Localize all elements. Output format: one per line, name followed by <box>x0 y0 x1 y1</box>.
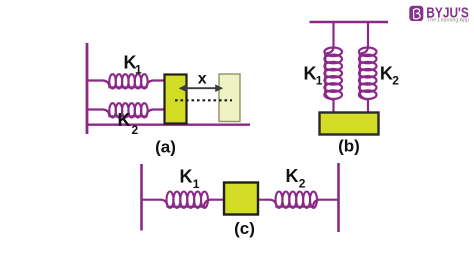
BYJU'S logo badge <box>409 6 423 21</box>
svg-text:2: 2 <box>299 177 306 191</box>
svg-text:1: 1 <box>316 74 323 88</box>
label K1 (a) <box>124 53 143 77</box>
wall (c) left fixed support <box>140 164 143 231</box>
svg-text:K: K <box>118 110 131 130</box>
svg-text:K: K <box>380 63 393 83</box>
label K2 (b) <box>380 63 399 87</box>
wall (a) left fixed support <box>86 43 89 134</box>
svg-text:(c): (c) <box>234 219 255 238</box>
wall (c) right fixed support <box>337 163 340 232</box>
spring K2 (c), horizontal coil <box>258 192 339 208</box>
mass block (c), yellow-green <box>224 183 258 215</box>
svg-text:K: K <box>304 63 317 83</box>
svg-text:1: 1 <box>193 177 200 191</box>
ceiling support (b) <box>310 21 389 24</box>
dotted reference line (a) <box>175 99 232 101</box>
ground line (a) <box>86 123 250 125</box>
svg-text:1: 1 <box>135 63 142 77</box>
spring K1 (a), horizontal coil <box>87 74 165 88</box>
svg-text:2: 2 <box>132 123 139 137</box>
label K1 (b) <box>304 63 323 87</box>
displaced ghost block (a), pale <box>219 74 240 122</box>
spring K2 (b), vertical coil <box>359 22 377 113</box>
displacement arrow x (a), double headed <box>179 84 224 92</box>
mass block (b), yellow-green <box>320 113 379 135</box>
svg-text:(b): (b) <box>338 137 360 156</box>
label K2 (a) <box>118 110 139 137</box>
svg-text:The Learning App: The Learning App <box>427 18 469 24</box>
svg-text:x: x <box>198 70 207 87</box>
mass block (a), yellow-green <box>165 75 187 124</box>
spring K2 (a), horizontal coil <box>87 103 165 117</box>
svg-text:K: K <box>180 167 193 187</box>
label K2 (c) <box>286 166 306 191</box>
spring K1 (c), horizontal coil <box>142 192 225 208</box>
label K1 (c) <box>180 167 200 192</box>
svg-text:K: K <box>286 166 299 186</box>
spring K1 (b), vertical coil <box>324 22 342 113</box>
svg-text:2: 2 <box>392 74 399 88</box>
svg-text:(a): (a) <box>155 138 176 157</box>
